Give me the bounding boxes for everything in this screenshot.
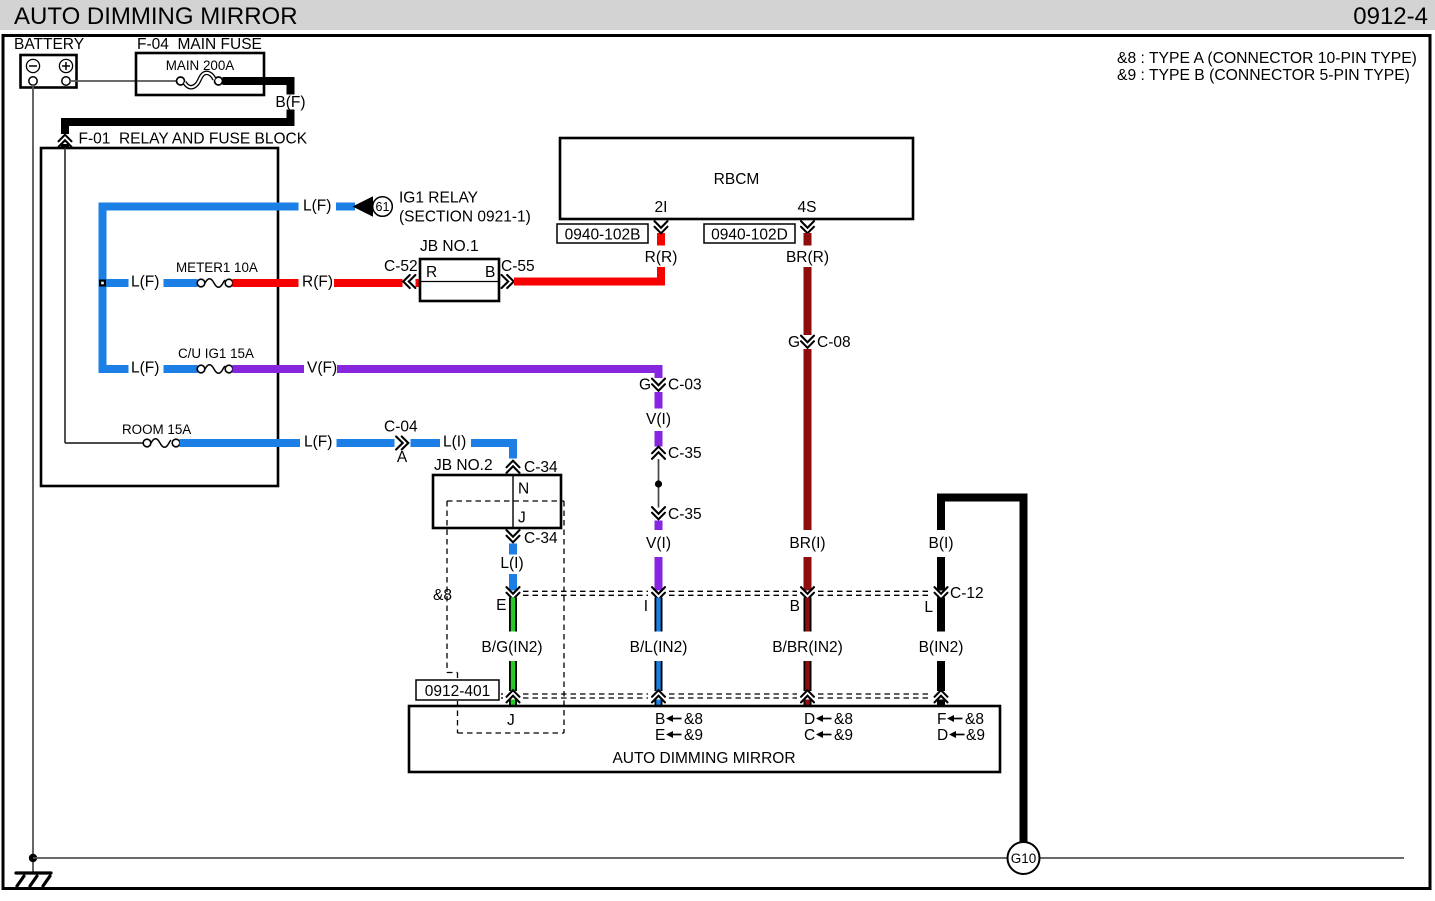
svg-text:L(I): L(I) [443, 434, 466, 451]
chassis ground symbol [16, 873, 51, 886]
wire B(IN2) black upper [937, 598, 945, 632]
svg-text:B(I): B(I) [929, 535, 954, 552]
svg-text:J: J [518, 510, 526, 527]
svg-text:V(I): V(I) [646, 535, 671, 552]
C-12 chevron wire3 [801, 587, 814, 599]
row 0912-401 chevron wire1 [507, 690, 520, 702]
junction square on trunk row2 [99, 280, 106, 287]
svg-text:B: B [655, 711, 665, 728]
svg-text:BR(I): BR(I) [789, 535, 825, 552]
C-12 chevron wire2 [652, 587, 665, 599]
svg-text:C: C [804, 727, 815, 744]
svg-text:C-35: C-35 [668, 506, 702, 523]
wire row2 L(F) blue [107, 279, 129, 287]
wire V(F) violet vertical drop [655, 369, 663, 378]
connector C-04 chevron [396, 437, 408, 450]
wire row1 L(F) to IG1 relay [99, 203, 299, 211]
connector ref box 0940-102D [704, 224, 795, 243]
wire row3 V(F) violet [233, 365, 305, 373]
svg-text:4S: 4S [798, 199, 817, 216]
connector row 0912-401 dashed lines [501, 694, 931, 698]
svg-text:E: E [655, 727, 665, 744]
IG1 relay circle 61 [373, 197, 393, 217]
svg-text:V(I): V(I) [646, 411, 671, 428]
wire R(R) red horizontal to RBCM [514, 278, 665, 286]
svg-text:G: G [639, 377, 651, 394]
svg-text:C-34: C-34 [524, 530, 558, 547]
svg-text:B: B [790, 598, 800, 615]
svg-text:L(F): L(F) [304, 434, 332, 451]
ground rail (thin) [33, 857, 1404, 859]
connector C-34 lower chevron [507, 530, 520, 542]
wire L(I) blue below JB NO.2 [509, 544, 517, 555]
svg-text:F-01 RELAY AND FUSE BLOCK: F-01 RELAY AND FUSE BLOCK [79, 131, 308, 148]
wire V(I) violet to C-35 [655, 431, 663, 447]
svg-text:JB NO.1: JB NO.1 [420, 238, 479, 255]
svg-text:2I: 2I [655, 199, 668, 216]
svg-text:C-12: C-12 [950, 585, 984, 602]
svg-text:C-08: C-08 [817, 334, 851, 351]
svg-text:&9: &9 [966, 727, 985, 744]
svg-text:L(I): L(I) [500, 555, 523, 572]
svg-text:&8 : TYPE A (CONNECTOR 10-PIN: &8 : TYPE A (CONNECTOR 10-PIN TYPE) [1117, 50, 1417, 67]
dashed harness region &8 [447, 501, 564, 733]
svg-text:0940-102D: 0940-102D [711, 227, 788, 244]
wire battery to main fuse (thin) [70, 80, 177, 82]
svg-text:D: D [937, 727, 948, 744]
connector chevron below RBCM pin 4S [801, 221, 814, 233]
connector row C-12 dashed lines [523, 591, 931, 595]
wire internal feed (thin) horizontal to ROOM fuse [65, 442, 143, 444]
connector C-08 chevron [801, 336, 814, 348]
svg-text:JB NO.2: JB NO.2 [434, 457, 493, 474]
wire BR(I) maroon vertical [804, 349, 812, 530]
svg-text:E: E [496, 597, 506, 614]
svg-text:B/L(IN2): B/L(IN2) [630, 639, 688, 656]
svg-text:G10: G10 [1011, 851, 1037, 866]
wire battery to fuse inside box (thin) [137, 80, 177, 82]
svg-text:G: G [788, 334, 800, 351]
wire row2 R(F) red [233, 279, 299, 287]
svg-text:L: L [924, 599, 933, 616]
svg-text:B/G(IN2): B/G(IN2) [481, 639, 542, 656]
main fuse element [177, 77, 185, 85]
wire B/G(IN2) green-black lower [509, 661, 517, 691]
connector chevron below RBCM pin 2I [655, 221, 668, 233]
svg-text:I: I [644, 598, 648, 615]
svg-text:&9 : TYPE B (CONNECTOR 5-PIN T: &9 : TYPE B (CONNECTOR 5-PIN TYPE) [1117, 67, 1410, 84]
svg-text:&8: &8 [684, 711, 703, 728]
svg-text:0912-4: 0912-4 [1353, 3, 1428, 30]
svg-text:&8: &8 [965, 711, 984, 728]
svg-text:B: B [485, 264, 495, 281]
wire thin between C-35 connectors [658, 459, 660, 508]
F-04 main fuse box [136, 53, 264, 95]
JB NO.1 box [420, 259, 499, 301]
svg-text:N: N [518, 481, 529, 498]
svg-text:0912-401: 0912-401 [425, 683, 491, 700]
JB NO.2 box [433, 475, 561, 528]
row 0912-401 chevron wire3 [801, 690, 814, 702]
svg-text:C-35: C-35 [668, 445, 702, 462]
svg-text:AUTO DIMMING MIRROR: AUTO DIMMING MIRROR [612, 750, 795, 767]
battery lower terminal circles [29, 77, 37, 85]
blue trunk vertical [99, 203, 107, 374]
svg-text:D: D [804, 711, 815, 728]
svg-text:61: 61 [376, 200, 390, 214]
svg-text:0940-102B: 0940-102B [565, 227, 641, 244]
battery box [21, 55, 77, 88]
svg-text:IG1 RELAY: IG1 RELAY [399, 190, 478, 207]
svg-text:&9: &9 [684, 727, 703, 744]
svg-text:MAIN 200A: MAIN 200A [166, 58, 235, 73]
svg-text:C-52: C-52 [384, 258, 418, 275]
AUTO DIMMING MIRROR box [409, 706, 1000, 772]
wire B(F) from fuse, thick black [223, 77, 295, 85]
connector C-35 lower chevron [652, 507, 665, 519]
svg-text:&9: &9 [834, 727, 853, 744]
wire B(IN2) black lower [937, 661, 945, 691]
svg-text:C-03: C-03 [668, 377, 702, 394]
F-01 relay and fuse block box [41, 148, 278, 486]
svg-text:METER1 10A: METER1 10A [176, 260, 258, 275]
wire row4 L(I) blue [411, 439, 441, 447]
svg-text:C-34: C-34 [524, 459, 558, 476]
wire V(I) violet upper [655, 392, 663, 409]
connector C-34 upper chevron [507, 461, 520, 473]
battery minus terminal [26, 59, 39, 72]
svg-text:C-55: C-55 [501, 258, 535, 275]
svg-text:R(R): R(R) [645, 249, 678, 266]
C-12 chevron wire1 [507, 587, 520, 599]
C/U IG1 fuse element [197, 365, 205, 373]
chevron into F-01 [59, 135, 72, 147]
wire B/L(IN2) blue-black lower [655, 661, 663, 691]
ROOM fuse element [143, 439, 151, 447]
wire row4 L(F) blue to C-04 [180, 439, 301, 447]
svg-text:BR(R): BR(R) [786, 249, 829, 266]
svg-text:&8: &8 [834, 711, 853, 728]
wire B/G(IN2) green-black upper [509, 598, 517, 632]
wire B(I) black from top right [937, 494, 1028, 502]
RBCM box [560, 138, 913, 219]
svg-text:(SECTION 0921-1): (SECTION 0921-1) [399, 209, 531, 226]
METER1 fuse element [197, 279, 205, 287]
svg-text:B(IN2): B(IN2) [919, 639, 964, 656]
svg-text:RBCM: RBCM [714, 171, 760, 188]
IG1 relay arrow [353, 196, 374, 217]
connector ref box 0940-102B [557, 224, 648, 243]
connector C-52 chevron [403, 275, 415, 288]
junction dot on C-35 link [655, 480, 662, 487]
connector ref box 0912-401 [416, 680, 499, 700]
wire B/BR(IN2) maroon-black lower [804, 661, 812, 691]
ground G10 circle [1008, 842, 1040, 874]
connector C-03 chevron [652, 379, 665, 391]
svg-text:AUTO DIMMING MIRROR: AUTO DIMMING MIRROR [14, 3, 298, 30]
svg-text:&8: &8 [433, 587, 452, 604]
wire internal feed (thin) vertical [64, 148, 66, 443]
row 0912-401 chevron wire2 [652, 690, 665, 702]
connector C-35 upper chevron [652, 447, 665, 459]
svg-text:J: J [507, 712, 515, 729]
wire battery negative to ground rail (thin) [32, 85, 34, 872]
junction dot on ground rail [29, 854, 37, 862]
wire row3 L(F) blue [107, 365, 129, 373]
wire B/L(IN2) blue-black upper [655, 598, 663, 632]
svg-text:BATTERY: BATTERY [14, 36, 84, 53]
svg-text:V(F): V(F) [307, 360, 337, 377]
wire B/BR(IN2) maroon-black upper [804, 598, 812, 632]
svg-text:F: F [937, 711, 946, 728]
svg-text:B/BR(IN2): B/BR(IN2) [772, 639, 843, 656]
svg-text:R: R [426, 264, 437, 281]
svg-text:A: A [397, 449, 408, 466]
svg-text:R(F): R(F) [302, 274, 333, 291]
connector C-55 chevron [502, 275, 514, 288]
svg-text:C/U IG1 15A: C/U IG1 15A [178, 346, 254, 361]
row 0912-401 chevron wire4 [935, 690, 948, 702]
title bar [0, 0, 1435, 30]
wire BR(R) maroon vertical [804, 233, 812, 246]
svg-text:L(F): L(F) [131, 360, 159, 377]
svg-text:L(F): L(F) [131, 274, 159, 291]
wire V(I) violet lower [655, 521, 663, 531]
svg-text:ROOM 15A: ROOM 15A [122, 422, 191, 437]
svg-text:B(F): B(F) [275, 94, 305, 111]
svg-text:C-04: C-04 [384, 419, 418, 436]
battery plus terminal [59, 59, 72, 72]
svg-text:F-04 MAIN FUSE: F-04 MAIN FUSE [137, 36, 262, 53]
C-12 chevron wire4 [935, 587, 948, 599]
svg-text:L(F): L(F) [303, 198, 331, 215]
